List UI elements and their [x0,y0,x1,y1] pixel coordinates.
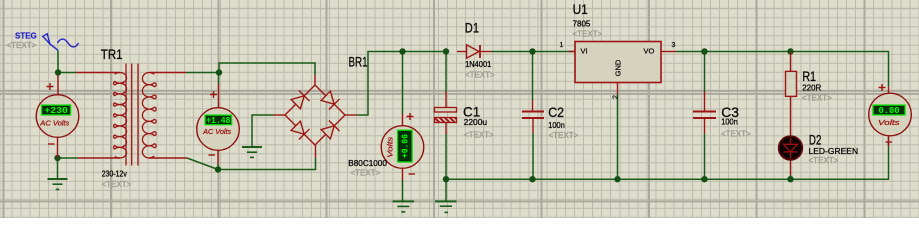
svg-text:STEG: STEG [15,32,37,41]
svg-text:<TEXT>: <TEXT> [7,41,37,50]
svg-text:LED-GREEN: LED-GREEN [809,147,859,156]
svg-text:2200u: 2200u [464,118,487,127]
svg-text:100n: 100n [721,118,738,127]
svg-text:AC Volts: AC Volts [202,129,232,136]
svg-text:Volts: Volts [878,120,900,127]
svg-text:+230: +230 [44,106,68,116]
svg-text:AC Volts: AC Volts [39,121,70,128]
svg-text:D2: D2 [809,132,822,148]
svg-text:230-12v: 230-12v [102,170,127,179]
svg-text:100n: 100n [548,121,565,130]
svg-text:<TEXT>: <TEXT> [573,30,603,39]
svg-text:2: 2 [613,95,620,99]
svg-text:B80C1000: B80C1000 [348,159,387,168]
svg-text:<TEXT>: <TEXT> [465,71,495,80]
svg-text:Volts: Volts [388,136,395,158]
svg-text:D1: D1 [465,20,479,36]
svg-text:3: 3 [672,42,676,49]
svg-text:U1: U1 [573,1,588,17]
svg-text:0.00: 0.00 [879,106,900,116]
svg-text:+0.06: +0.06 [401,134,411,158]
svg-text:<TEXT>: <TEXT> [102,180,132,189]
svg-text:<TEXT>: <TEXT> [721,130,751,139]
svg-text:VO: VO [644,46,655,55]
svg-text:7805: 7805 [573,20,591,29]
svg-text:<TEXT>: <TEXT> [549,131,579,140]
svg-text:<TEXT>: <TEXT> [809,156,839,165]
svg-text:<TEXT>: <TEXT> [351,169,381,178]
svg-text:VI: VI [581,46,588,55]
svg-text:1: 1 [560,42,564,49]
svg-text:TR1: TR1 [101,46,123,62]
svg-text:+1.48: +1.48 [206,116,230,126]
svg-text:<TEXT>: <TEXT> [802,94,832,103]
svg-text:220R: 220R [802,84,821,93]
svg-text:1N4001: 1N4001 [465,60,492,69]
svg-text:BR1: BR1 [349,54,368,70]
svg-text:<TEXT>: <TEXT> [464,131,494,140]
svg-text:C2: C2 [548,104,564,120]
svg-text:R1: R1 [802,68,816,84]
svg-text:GND: GND [614,59,623,76]
